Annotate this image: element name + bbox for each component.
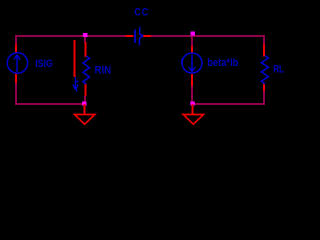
- capacitor CC right plate: [139, 27, 143, 46]
- current marker red shaft: [74, 40, 76, 77]
- dependent source beta*Ib left-edge notch: [182, 59, 183, 65]
- resistor RIN pin top: [85, 42, 87, 57]
- wire bottom-left horizontal: [16, 103, 85, 105]
- svg-text:beta*Ib: beta*Ib: [207, 57, 238, 69]
- wire top-left horizontal (node IN): [16, 35, 126, 37]
- dependent source beta*Ib arrow: [189, 55, 195, 72]
- resistor RIN body zigzag: [83, 56, 90, 84]
- current source ISIG pin top: [15, 44, 17, 53]
- wire left vertical: [15, 35, 17, 105]
- dependent source beta*Ib pin bottom: [191, 74, 193, 86]
- wire bottom-right horizontal: [192, 103, 264, 105]
- wire beta*Ib branch upper stub: [191, 36, 193, 47]
- svg-text:ISIG: ISIG: [35, 58, 53, 70]
- ground stub right: [192, 104, 194, 114]
- svg-text:C: C: [142, 7, 148, 19]
- dependent source beta*Ib pin top: [191, 46, 193, 54]
- svg-text:RL: RL: [273, 63, 284, 75]
- junction node dot bottom-right: [190, 102, 195, 106]
- ground symbol left: [75, 115, 95, 125]
- capacitor CC pin right: [143, 35, 151, 37]
- wire right vertical (RL branch upper): [263, 35, 265, 45]
- current marker blue arrow: [73, 77, 79, 92]
- svg-text:C: C: [134, 7, 140, 19]
- dependent source beta*Ib body: [182, 53, 202, 73]
- junction node dot top-right: [191, 32, 196, 36]
- ground stub left: [84, 104, 86, 114]
- wire top-right horizontal (node OUT): [151, 35, 264, 37]
- resistor RL pin bottom: [263, 84, 265, 92]
- wire beta*Ib branch lower stub: [191, 86, 193, 104]
- resistor RL pin top: [263, 44, 265, 57]
- current source ISIG body: [7, 53, 27, 73]
- junction node dot bottom-left: [82, 102, 87, 106]
- capacitor CC pin left: [126, 35, 134, 37]
- capacitor CC left plate: [134, 30, 136, 44]
- wire right vertical (RL branch lower): [263, 91, 265, 105]
- current source ISIG pin bottom: [15, 73, 17, 83]
- wire RIN branch upper stub: [84, 36, 86, 43]
- junction node dot top-left: [83, 33, 88, 37]
- resistor RL body zigzag: [261, 56, 268, 85]
- ground symbol right: [183, 115, 203, 125]
- wire RIN branch lower stub: [84, 96, 86, 103]
- current source ISIG arrow: [14, 55, 20, 72]
- svg-text:RIN: RIN: [95, 65, 112, 77]
- resistor RIN pin bottom: [85, 84, 87, 97]
